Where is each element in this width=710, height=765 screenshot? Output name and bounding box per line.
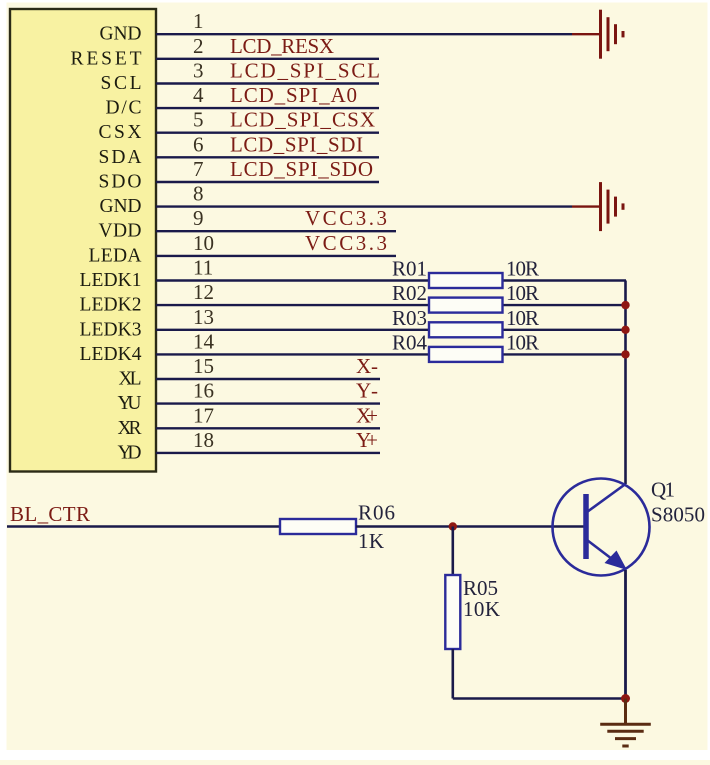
svg-text:7: 7: [193, 157, 204, 181]
svg-text:GND: GND: [100, 24, 142, 45]
svg-text:1K: 1K: [358, 529, 384, 553]
svg-text:15: 15: [193, 354, 214, 378]
svg-text:10: 10: [193, 231, 214, 255]
svg-text:R01: R01: [392, 257, 427, 281]
svg-text:Y+: Y+: [356, 428, 378, 452]
svg-text:LEDK2: LEDK2: [80, 295, 142, 316]
svg-text:XL: XL: [119, 369, 142, 390]
svg-text:LEDA: LEDA: [89, 245, 142, 266]
svg-text:S8050: S8050: [651, 503, 705, 527]
svg-text:LCD_SPI_CSX: LCD_SPI_CSX: [230, 108, 375, 132]
svg-text:10R: 10R: [506, 281, 539, 305]
svg-text:13: 13: [193, 305, 214, 329]
svg-text:12: 12: [193, 280, 214, 304]
svg-text:10R: 10R: [506, 257, 539, 281]
svg-text:GND: GND: [100, 196, 142, 217]
svg-text:11: 11: [193, 256, 213, 280]
svg-text:X+: X+: [356, 403, 378, 427]
svg-text:3: 3: [193, 59, 204, 83]
svg-text:4: 4: [193, 83, 204, 107]
svg-text:XR: XR: [118, 418, 142, 439]
svg-text:R04: R04: [392, 330, 428, 354]
svg-text:LEDK1: LEDK1: [80, 270, 142, 291]
svg-text:X-: X-: [356, 354, 378, 378]
svg-text:Q1: Q1: [651, 478, 675, 502]
svg-text:8: 8: [193, 182, 204, 206]
svg-text:LCD_SPI_SCL: LCD_SPI_SCL: [230, 59, 380, 83]
svg-text:SCL: SCL: [101, 73, 142, 94]
svg-text:18: 18: [193, 428, 214, 452]
svg-text:2: 2: [193, 34, 204, 58]
svg-text:LCD_SPI_SDI: LCD_SPI_SDI: [230, 132, 363, 156]
svg-text:YD: YD: [118, 442, 142, 463]
svg-text:10R: 10R: [506, 330, 539, 354]
svg-text:Y-: Y-: [356, 379, 378, 403]
svg-text:R03: R03: [392, 306, 427, 330]
svg-text:VDD: VDD: [99, 221, 142, 242]
svg-text:YU: YU: [118, 393, 142, 414]
svg-text:LEDK4: LEDK4: [80, 344, 142, 365]
svg-text:5: 5: [193, 108, 204, 132]
svg-text:BL_CTR: BL_CTR: [10, 502, 90, 526]
svg-text:LEDK3: LEDK3: [80, 319, 142, 340]
svg-text:RESET: RESET: [71, 48, 142, 69]
svg-text:SDA: SDA: [99, 147, 142, 168]
svg-text:LCD_RESX: LCD_RESX: [230, 34, 334, 58]
svg-text:14: 14: [193, 329, 215, 353]
svg-text:LCD_SPI_SDO: LCD_SPI_SDO: [230, 157, 373, 181]
svg-text:1: 1: [193, 9, 204, 33]
svg-text:10R: 10R: [506, 306, 539, 330]
svg-text:9: 9: [193, 206, 204, 230]
svg-text:10K: 10K: [463, 597, 500, 621]
svg-text:LCD_SPI_A0: LCD_SPI_A0: [230, 83, 357, 107]
svg-text:6: 6: [193, 132, 204, 156]
svg-text:R02: R02: [392, 281, 427, 305]
svg-text:SDO: SDO: [99, 172, 142, 193]
svg-text:R06: R06: [358, 501, 395, 525]
svg-text:17: 17: [193, 403, 214, 427]
svg-text:CSX: CSX: [99, 122, 142, 143]
svg-text:16: 16: [193, 379, 214, 403]
svg-text:D/C: D/C: [106, 98, 142, 119]
